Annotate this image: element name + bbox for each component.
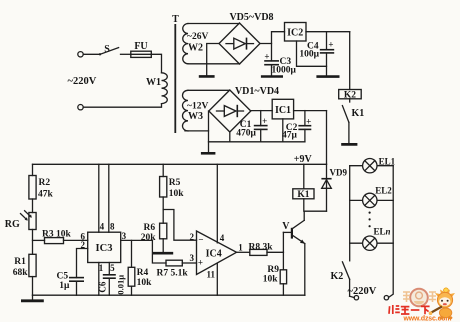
svg-text:K2: K2 [331, 271, 344, 282]
ground (bridge 1) [199, 44, 219, 77]
svg-text:FU: FU [134, 41, 147, 52]
resistor R8 [237, 242, 284, 255]
transistor V [282, 220, 305, 295]
wire (to IC4 pin 2) [163, 210, 196, 241]
svg-text:2: 2 [81, 240, 86, 250]
wire [294, 110, 327, 112]
wire (IC3 pin 8) [109, 164, 115, 232]
capacitor C1 [236, 111, 267, 142]
wire [306, 31, 350, 33]
svg-text:470μ: 470μ [236, 128, 256, 138]
capacitor C4 [299, 32, 334, 75]
svg-text:10k: 10k [169, 189, 185, 199]
svg-text:1μ: 1μ [59, 281, 70, 291]
wire (IC1 gnd) [282, 119, 284, 142]
wire [188, 23, 240, 25]
resistor R3 [33, 229, 88, 243]
wire [121, 53, 131, 55]
secondary winding W3 [182, 90, 208, 131]
svg-text:IC1: IC1 [275, 105, 291, 116]
svg-text:RG: RG [5, 219, 20, 230]
wire [349, 32, 351, 90]
wire (IC3 pin 4) [99, 164, 105, 232]
svg-text:~12V: ~12V [187, 101, 208, 111]
resistor R9 [263, 252, 287, 295]
wire [83, 104, 161, 108]
svg-text:ELn: ELn [374, 227, 391, 237]
secondary winding W2 [183, 24, 209, 64]
svg-text:+9V: +9V [294, 154, 313, 165]
svg-text:C6: C6 [97, 281, 107, 292]
capacitor C6 (pin 5) [97, 263, 125, 296]
lamp EL1 [350, 157, 396, 173]
terminal ~220V lamp left [354, 296, 358, 300]
capacitor C5 [57, 249, 88, 296]
regulator IC1 [272, 99, 293, 119]
terminal ~220V bottom [78, 105, 83, 110]
svg-text:IC2: IC2 [287, 27, 303, 38]
svg-text:11: 11 [207, 270, 216, 280]
bridge rectifier VD1~VD4 [209, 86, 279, 132]
svg-text:~220V: ~220V [348, 286, 377, 297]
wire (IC4 pin 4) [216, 164, 218, 243]
wire [185, 130, 209, 132]
svg-text:R4: R4 [137, 268, 149, 278]
wire [260, 32, 285, 44]
svg-text:1: 1 [238, 242, 243, 252]
svg-text:VD1~VD4: VD1~VD4 [235, 86, 279, 97]
ground (C3) [261, 75, 283, 78]
terminal ~220V top [78, 52, 83, 57]
svg-text:T: T [172, 14, 179, 25]
wire (IC3 pin 1) [99, 263, 104, 296]
node bottom rail [33, 294, 305, 296]
svg-text:R1: R1 [14, 257, 26, 267]
svg-text:R7 5.1k: R7 5.1k [157, 268, 189, 278]
svg-text:+: + [198, 258, 203, 268]
svg-text:3: 3 [122, 231, 127, 241]
svg-text:~26V: ~26V [187, 32, 208, 42]
wire [229, 132, 231, 142]
op-amp IC4 [189, 231, 243, 280]
switch S [99, 44, 119, 56]
wire (IC2 gnd) [297, 41, 327, 66]
wire (lamp ladder right rail) [389, 166, 394, 298]
regulator IC2 [285, 23, 307, 42]
contact K2 [331, 262, 355, 298]
ground (C4) [316, 75, 339, 78]
svg-text:1: 1 [99, 263, 104, 273]
svg-text:+: + [306, 116, 311, 126]
svg-text:S: S [104, 44, 110, 55]
photoresistor RG [5, 199, 36, 230]
node +9V rail [33, 154, 327, 165]
svg-text:R3 10k: R3 10k [42, 229, 71, 239]
resistor R7 [157, 260, 197, 278]
svg-text:VD5~VD8: VD5~VD8 [229, 12, 273, 23]
contact K1 [342, 99, 364, 143]
watermark dzsc.com [389, 288, 455, 322]
svg-text:47k: 47k [38, 190, 54, 200]
resistor R2 [29, 164, 54, 199]
svg-text:4: 4 [220, 233, 225, 243]
bridge rectifier VD5~VD8 [219, 12, 274, 64]
svg-text:8: 8 [110, 221, 115, 231]
svg-text:V: V [282, 221, 290, 232]
svg-text:R2: R2 [39, 178, 51, 188]
svg-text:VD9: VD9 [330, 168, 348, 178]
svg-text:68k: 68k [13, 268, 29, 278]
svg-text:K1: K1 [352, 108, 365, 119]
svg-text:1000μ: 1000μ [272, 66, 297, 76]
svg-text:3: 3 [189, 253, 194, 263]
primary winding W1 [146, 73, 167, 104]
wire [326, 111, 328, 165]
svg-text:R8 3k: R8 3k [249, 242, 274, 252]
svg-text:2: 2 [189, 232, 194, 242]
relay coil K1 [293, 164, 314, 211]
wire [251, 110, 272, 112]
wire (dc minus rail) [209, 141, 305, 143]
svg-text:IC4: IC4 [206, 248, 222, 259]
svg-text:5: 5 [110, 263, 115, 273]
relay coil K2 [339, 90, 362, 101]
lamp ELn [350, 227, 394, 251]
svg-text:+: + [328, 39, 333, 49]
transformer T core [172, 14, 179, 133]
svg-text:IC3: IC3 [96, 243, 113, 254]
svg-text:W2: W2 [188, 43, 203, 54]
svg-text:W3: W3 [188, 111, 203, 122]
ground (K1 contact) [341, 143, 357, 146]
svg-text:EL1: EL1 [379, 157, 396, 167]
svg-text:R5: R5 [169, 178, 181, 188]
svg-text:4: 4 [100, 221, 105, 231]
svg-text:R6: R6 [144, 223, 156, 233]
svg-text:100μ: 100μ [299, 50, 319, 60]
lamp EL2 [350, 185, 394, 207]
svg-text:20k: 20k [141, 233, 157, 243]
wire (IC4 pin 11) [216, 264, 218, 296]
fuse FU [131, 41, 152, 57]
wire [188, 89, 230, 91]
svg-text:0.01μ: 0.01μ [115, 275, 125, 295]
wire [188, 63, 240, 65]
wire [83, 53, 99, 55]
svg-text:−: − [198, 235, 203, 245]
capacitor C3 [264, 44, 296, 76]
wire (IC3 pin 3) [121, 231, 166, 263]
resistor R1 [13, 230, 36, 296]
svg-text:~220V: ~220V [68, 76, 97, 87]
resistor R4 [128, 240, 152, 295]
ground (R6) [153, 252, 173, 255]
svg-text:10k: 10k [263, 274, 279, 284]
svg-text:W1: W1 [146, 77, 161, 88]
timer IC3 [81, 232, 121, 263]
capacitor C2 [282, 111, 311, 142]
svg-text:10k: 10k [137, 278, 153, 288]
svg-text:+: + [264, 52, 269, 62]
wire (lamp ladder left rail) [349, 166, 351, 261]
diode VD9 [321, 164, 347, 211]
svg-text:47μ: 47μ [282, 131, 298, 141]
ground (bridge 2) [201, 111, 216, 153]
node dots [369, 212, 371, 228]
terminal ~220V lamp right [384, 296, 388, 300]
svg-text:EL2: EL2 [375, 185, 392, 195]
wire [151, 54, 161, 73]
resistor R6 [141, 210, 167, 253]
ground (main) [21, 295, 44, 301]
svg-text:+: + [262, 116, 267, 126]
resistor R5 [160, 164, 185, 209]
wire (collector to K1) [304, 211, 326, 220]
